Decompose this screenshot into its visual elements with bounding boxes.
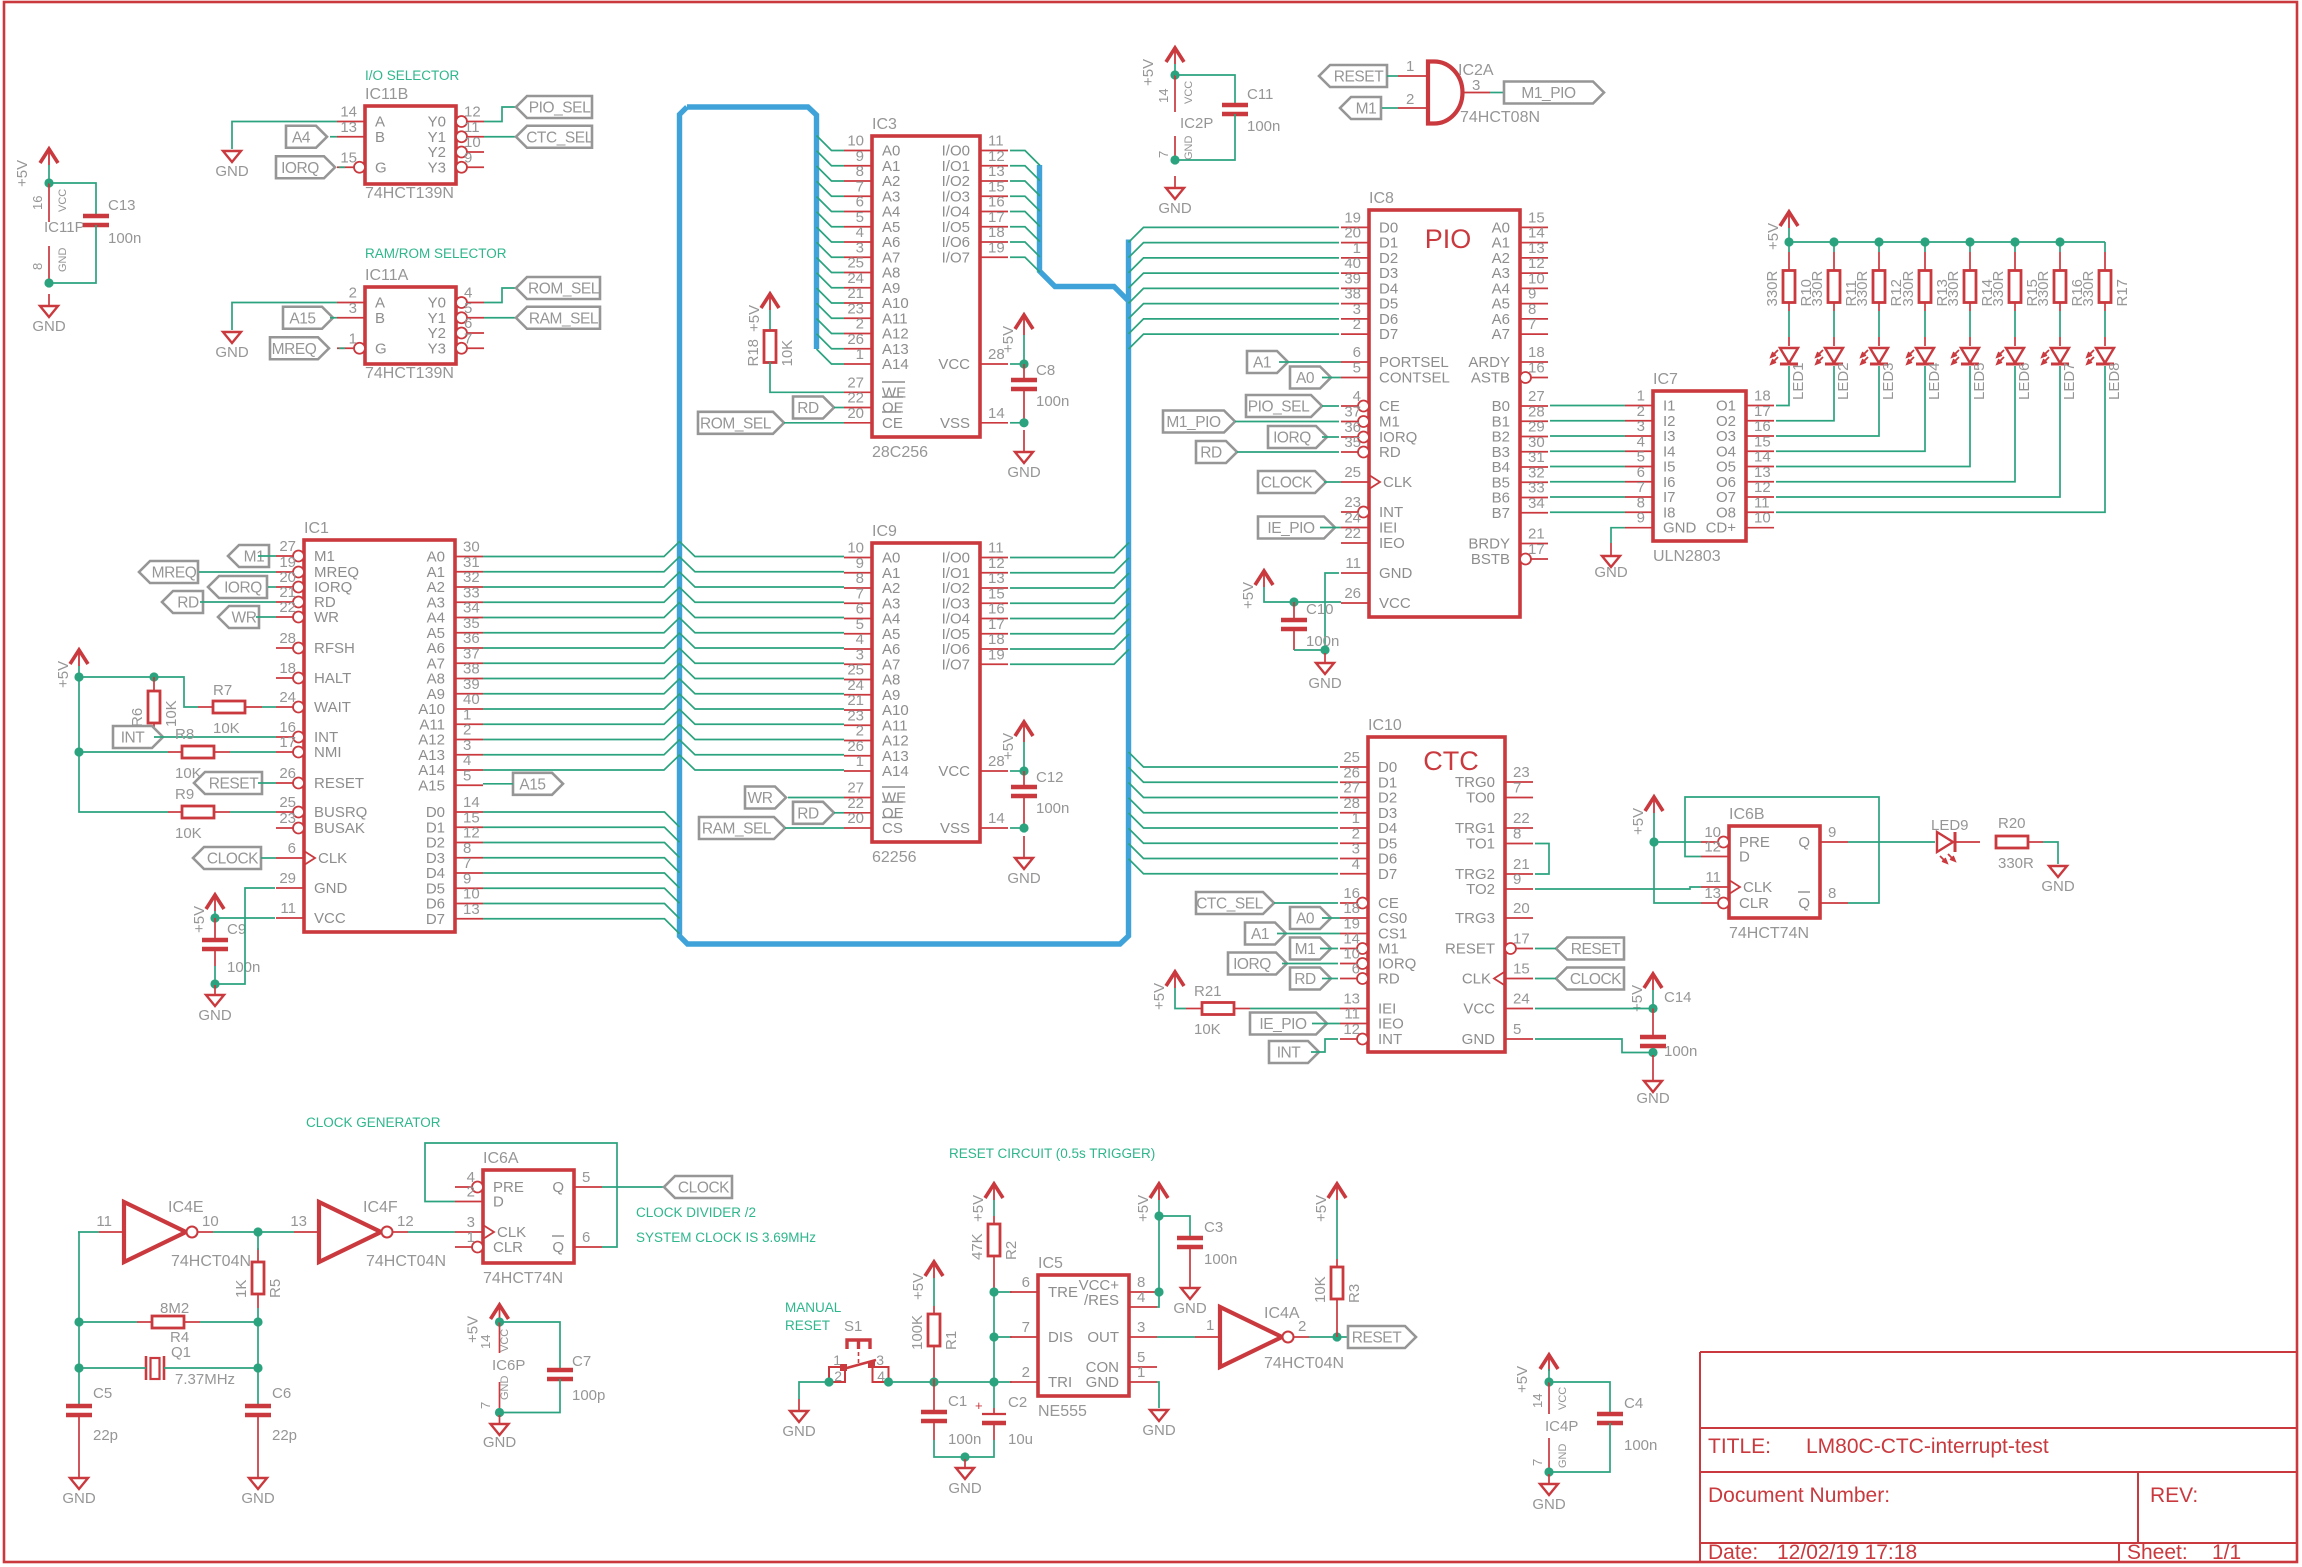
wire S1 to TRI net: [889, 1381, 1013, 1383]
wire wire LED5 to ULN O5: [1776, 366, 1970, 467]
net label IE_PIO (CTC IEO): [1250, 1013, 1327, 1035]
net label A1 (CTC CS1): [1245, 923, 1286, 945]
wire INT to CTC: [1311, 1039, 1338, 1052]
wire R21 to CTC IEI: [1250, 1008, 1340, 1010]
svg-text:2: 2: [834, 1368, 842, 1384]
wire wire CTC D5 to bus: [1129, 828, 1339, 843]
net label RAM_SEL: [516, 307, 600, 329]
svg-text:B: B: [375, 129, 385, 146]
svg-text:GND: GND: [198, 1007, 232, 1024]
svg-text:6: 6: [1022, 1274, 1030, 1291]
svg-text:C10: C10: [1306, 601, 1334, 618]
svg-text:7: 7: [464, 330, 472, 347]
svg-text:74HCT04N: 74HCT04N: [1264, 1355, 1344, 1372]
svg-text:CE: CE: [1379, 398, 1400, 415]
svg-text:14: 14: [478, 1335, 493, 1349]
svg-text:VCC: VCC: [499, 1329, 511, 1352]
svg-text:25: 25: [279, 794, 296, 811]
pin number 1 label: [1206, 1317, 1214, 1334]
svg-text:INT: INT: [1277, 1045, 1302, 1062]
wire IE_PIO to CTC IEO: [1312, 1023, 1340, 1025]
resistor R12: [1854, 270, 1905, 306]
junction CTC GND: [1648, 1048, 1657, 1057]
svg-text:330R: 330R: [1998, 855, 2034, 872]
svg-text:R7: R7: [213, 682, 232, 699]
ground at C3: [1173, 1288, 1207, 1317]
junction IC1 VCC: [210, 913, 219, 922]
svg-text:D7: D7: [1378, 866, 1397, 883]
wire IC3 A2 bus entry: [817, 166, 845, 181]
wire Y1 to RAM_SEL: [484, 317, 516, 319]
wire wire PIO B7 to ULN I8: [1550, 511, 1625, 513]
wire IC9 VCC to +5V: [1010, 770, 1024, 772]
overline mark IC6A Qbar: [552, 1235, 564, 1237]
wire IC4A out to RESET: [1309, 1336, 1348, 1338]
svg-text:+5V: +5V: [1151, 983, 1168, 1010]
net label A15 (IC11A): [283, 307, 333, 329]
svg-text:IC11P: IC11P: [44, 219, 85, 236]
junction S1 right: [884, 1377, 893, 1386]
wire CTC_SEL to CE: [1274, 902, 1338, 904]
svg-text:330R: 330R: [1809, 270, 1826, 306]
svg-text:+5V: +5V: [1240, 582, 1257, 609]
svg-text:74HCT74N: 74HCT74N: [1729, 925, 1809, 942]
wire +5V to IC6B CLR: [1654, 842, 1701, 903]
svg-text:TO1: TO1: [1466, 836, 1495, 853]
resistor R16: [2035, 270, 2086, 306]
wire S1 to GND: [799, 1382, 829, 1399]
svg-text:D7: D7: [426, 911, 445, 928]
svg-text:IC3: IC3: [872, 116, 897, 133]
wire TO2 to IC6B CLK: [1535, 887, 1701, 889]
+5V supply at CPU pull-ups: [55, 650, 88, 688]
resistor R1 leads: [933, 1306, 935, 1382]
wire IC4F out to IC6A CLK: [408, 1231, 455, 1233]
wire wire PIO B1 to ULN I2: [1550, 420, 1625, 422]
wire Q1 row right: [164, 1367, 258, 1369]
svg-text:CTC: CTC: [1423, 746, 1479, 776]
wire +5V to IC1 VCC: [215, 911, 275, 918]
svg-text:BRDY: BRDY: [1468, 536, 1510, 553]
wire Y1 to CTC_SEL: [484, 136, 516, 138]
svg-text:LED8: LED8: [2106, 362, 2123, 400]
svg-text:19: 19: [988, 239, 1005, 256]
wire wire A3 CPU-RAM over bus: [483, 587, 844, 602]
wire wire CTC D3 to bus: [1129, 798, 1339, 813]
capacitor C4: [1597, 1395, 1657, 1454]
net label M1 (CTC): [1290, 938, 1331, 960]
wire C1 to GND node: [934, 1440, 965, 1457]
C6 lead: [257, 1415, 259, 1478]
wire wire D0 CPU to bus: [483, 812, 680, 827]
wire wire LED2 to ULN O2: [1776, 366, 1834, 421]
svg-text:GND: GND: [241, 1490, 275, 1507]
svg-text:+5V: +5V: [1630, 808, 1647, 835]
+5V supply at R21: [1151, 972, 1184, 1010]
svg-text:MREQ: MREQ: [272, 341, 317, 358]
wire RD to PIO: [1237, 451, 1339, 453]
svg-text:24: 24: [1513, 991, 1530, 1008]
svg-text:CE: CE: [882, 415, 903, 432]
LED9 leads: [1955, 841, 2043, 843]
capacitor C8 leads: [1023, 364, 1025, 423]
wire IC9 VSS to GND: [1010, 827, 1024, 829]
svg-text:O8: O8: [1716, 504, 1736, 521]
junction NMI rail: [74, 747, 83, 756]
wire left column: [78, 1232, 80, 1322]
wire ROM_SEL to IC3 CE: [784, 422, 844, 424]
wire wire PIO B0 to ULN I1: [1550, 405, 1625, 407]
svg-text:74HCT04N: 74HCT04N: [171, 1253, 251, 1270]
svg-text:74HCT139N: 74HCT139N: [365, 185, 454, 202]
svg-text:GND: GND: [782, 1423, 816, 1440]
svg-text:A1: A1: [1251, 926, 1269, 943]
net label IORQ (IC11B G): [276, 156, 335, 178]
wire MREQ to IC1: [199, 571, 276, 573]
C5 lead: [78, 1415, 80, 1478]
wire IC5 VCC to +5V: [1158, 1216, 1160, 1292]
net label CTC_SEL (CTC CE): [1196, 892, 1274, 914]
resistor R13: [1900, 270, 1951, 306]
+5V supply at IC3: [1000, 315, 1033, 353]
wire Y0 to PIO_SEL: [484, 107, 516, 122]
svg-text:GND: GND: [1308, 675, 1342, 692]
svg-text:9: 9: [1637, 510, 1645, 527]
svg-text:GND: GND: [32, 318, 66, 335]
svg-text:100n: 100n: [1036, 393, 1069, 410]
svg-text:18: 18: [1528, 344, 1545, 361]
wire IC6A feedback Qbar to D: [425, 1143, 617, 1247]
net label RESET (IC1): [194, 772, 262, 794]
wire +5V stem IC5: [1158, 1200, 1160, 1216]
resistor R18: [745, 331, 796, 367]
wire IC3 I/O4 bus entry: [1010, 212, 1040, 227]
IC IC10: [1340, 717, 1533, 1052]
svg-text:10K: 10K: [163, 700, 180, 727]
svg-text:CTC_SEL: CTC_SEL: [526, 129, 593, 146]
svg-text:CLR: CLR: [1739, 895, 1769, 912]
svg-text:1K: 1K: [233, 1280, 250, 1298]
wire +5V to R1: [933, 1278, 935, 1306]
svg-text:C14: C14: [1664, 989, 1692, 1006]
net label RESET (IC2A): [1319, 65, 1387, 87]
svg-text:+5V: +5V: [191, 906, 208, 933]
svg-text:CLOCK: CLOCK: [1261, 475, 1313, 492]
svg-text:10K: 10K: [779, 340, 796, 367]
svg-text:Q: Q: [552, 1239, 564, 1256]
wire IC9 I/O2 wire to bus: [1010, 573, 1129, 588]
wire RAM_SEL to IC9 CS: [785, 827, 844, 829]
svg-text:R3: R3: [1346, 1284, 1363, 1303]
resistor R16 leads: [2059, 242, 2061, 346]
wire CTC RESET to flag: [1535, 948, 1556, 950]
IC IC7: [1625, 371, 1774, 565]
svg-text:VCC: VCC: [314, 910, 346, 927]
svg-text:NMI: NMI: [314, 744, 342, 761]
svg-text:9: 9: [1513, 871, 1521, 888]
ground at IC9: [1007, 836, 1041, 887]
IC IC5: [1010, 1255, 1157, 1420]
wire left column 2: [78, 1322, 80, 1404]
resistor R1: [909, 1314, 960, 1350]
junction LED rail R14: [1965, 237, 1974, 246]
svg-text:CLOCK: CLOCK: [207, 851, 259, 868]
IC2P power pins: [1156, 75, 1213, 160]
wire RD to IC1: [200, 601, 276, 603]
capacitor C14: [1640, 989, 1697, 1060]
svg-text:4: 4: [1137, 1289, 1145, 1306]
junction R6 top: [149, 672, 158, 681]
junction IC1 GND: [210, 979, 219, 988]
svg-text:12: 12: [397, 1213, 414, 1230]
IC IC3: [844, 116, 1008, 461]
wire +5V to IC2P: [1174, 64, 1176, 75]
wire R2 to DIS: [993, 1292, 995, 1337]
resistor R15 leads: [2014, 242, 2016, 346]
svg-text:VCC: VCC: [1183, 81, 1195, 104]
wire wire PIO B5 to ULN I6: [1550, 481, 1625, 483]
resistor R17: [2080, 270, 2131, 306]
wire IORQ to PIO: [1322, 436, 1339, 438]
capacitor C3: [1177, 1219, 1237, 1268]
wire wire CTC D2 to bus: [1129, 783, 1339, 798]
svg-text:S1: S1: [844, 1318, 862, 1335]
svg-text:17: 17: [1513, 931, 1530, 948]
svg-text:CLK: CLK: [1743, 879, 1772, 896]
svg-text:RESET: RESET: [209, 776, 259, 793]
+5V supply at CTC: [1629, 974, 1662, 1012]
wire IC3 A5 bus entry: [817, 212, 845, 227]
wire CTC CLK to flag: [1535, 978, 1556, 980]
capacitor C7: [547, 1353, 605, 1404]
wire C7 to IC6P GND: [500, 1379, 561, 1413]
svg-text:IC10: IC10: [1368, 717, 1402, 734]
wire M1 to IC1: [258, 555, 276, 557]
svg-text:R5: R5: [267, 1279, 284, 1298]
resistor R3 leads: [1336, 1259, 1338, 1337]
svg-text:14: 14: [1156, 89, 1171, 103]
svg-text:CLK: CLK: [1462, 971, 1491, 988]
svg-text:330R: 330R: [2080, 270, 2097, 306]
svg-text:Q1: Q1: [171, 1344, 191, 1361]
junction LED rail R16: [2055, 237, 2064, 246]
svg-text:VCC: VCC: [1379, 595, 1411, 612]
svg-text:DIS: DIS: [1048, 1329, 1073, 1346]
svg-text:TRE: TRE: [1048, 1284, 1078, 1301]
svg-text:C11: C11: [1247, 86, 1273, 103]
ground at IC4P: [1532, 1474, 1566, 1513]
ground at C1/C2: [948, 1459, 982, 1497]
wire wire LED4 to ULN O4: [1776, 366, 1925, 451]
wire wire PIO D5 to bus: [1129, 304, 1340, 319]
svg-text:WR: WR: [748, 790, 773, 807]
svg-text:7: 7: [1156, 151, 1171, 158]
svg-text:17: 17: [1528, 541, 1545, 558]
wire IC9 I/O0 wire to bus: [1010, 543, 1129, 558]
wire RD to IC3 OE: [834, 407, 844, 409]
+5V supply at R3: [1313, 1184, 1346, 1222]
svg-text:D: D: [493, 1194, 504, 1211]
wire IC4P VCC to C4: [1549, 1382, 1610, 1414]
svg-text:VCC: VCC: [1557, 1387, 1569, 1410]
svg-text:D: D: [1739, 849, 1750, 866]
svg-text:R8: R8: [175, 726, 194, 743]
wire IC5 OUT to IC4A: [1157, 1336, 1195, 1338]
svg-text:+5V: +5V: [1313, 1195, 1330, 1222]
svg-text:LED2: LED2: [1835, 362, 1852, 400]
svg-text:100n: 100n: [1247, 118, 1280, 135]
wire A1 to PORTSEL: [1279, 361, 1341, 363]
svg-text:+: +: [975, 1398, 983, 1413]
wire IORQ to CTC: [1282, 963, 1338, 965]
section title CLOCK GENERATOR: [306, 1115, 441, 1130]
wire C3 wire: [1159, 1216, 1190, 1238]
wire IC5 GND wire: [1157, 1382, 1159, 1408]
svg-text:GND: GND: [2041, 878, 2075, 895]
ground at IC11A A: [215, 332, 249, 361]
svg-text:74HCT08N: 74HCT08N: [1460, 109, 1540, 126]
+5V supply at IC11P: [14, 149, 58, 187]
wire wire CTC D7 to bus: [1129, 859, 1339, 874]
svg-text:TRI: TRI: [1048, 1374, 1072, 1391]
svg-text:13: 13: [1704, 885, 1721, 902]
net label RD (CTC): [1290, 968, 1331, 990]
net label PIO_SEL: [516, 96, 592, 118]
inverter IC4A: [1195, 1305, 1344, 1372]
net label IORQ (CTC): [1228, 953, 1287, 975]
svg-text:37: 37: [1344, 404, 1361, 421]
svg-text:2: 2: [1022, 1364, 1030, 1381]
resistor R20: [1996, 815, 2034, 872]
svg-text:CLOCK: CLOCK: [678, 1180, 730, 1197]
junction reset GND node: [960, 1452, 969, 1461]
wire IC6B feedback Qbar to D: [1685, 797, 1879, 903]
wire IC11B A to GND: [232, 122, 337, 150]
wire R18 to IC3 WE: [770, 362, 844, 392]
wire DIS wire: [994, 1336, 1012, 1338]
wire wire A10 CPU-RAM over bus: [483, 694, 844, 709]
svg-text:RESET CIRCUIT (0.5s TRIGGER): RESET CIRCUIT (0.5s TRIGGER): [949, 1146, 1155, 1161]
IC IC6B: [1701, 806, 1848, 942]
wire IORQ to IC1: [268, 586, 276, 588]
svg-text:2: 2: [1353, 316, 1361, 333]
svg-text:LED3: LED3: [1880, 362, 1897, 400]
wire IC3 I/O1 bus entry: [1010, 166, 1040, 181]
net label RESET (CTC): [1556, 938, 1624, 960]
svg-text:BUSAK: BUSAK: [314, 820, 365, 837]
svg-text:GND: GND: [1173, 1300, 1207, 1317]
svg-text:IC11A: IC11A: [365, 267, 409, 284]
wire IC2P VCC to C11: [1175, 75, 1235, 105]
wire M1 to IC2A pin2: [1382, 107, 1398, 109]
resistor R2: [969, 1224, 1020, 1260]
svg-text:+5V: +5V: [1135, 1195, 1152, 1222]
wire wire A12 CPU-RAM over bus: [483, 725, 844, 740]
svg-text:RESET: RESET: [1334, 69, 1384, 86]
svg-text:TRG1: TRG1: [1455, 820, 1495, 837]
wire +5V to R3: [1336, 1200, 1338, 1259]
svg-text:LED4: LED4: [1926, 362, 1943, 400]
net label IORQ (IC1): [208, 576, 267, 598]
wire wire PIO B6 to ULN I7: [1550, 496, 1625, 498]
ground at ULN2803: [1594, 543, 1628, 581]
wire IC9 I/O6 wire to bus: [1010, 634, 1129, 649]
svg-text:Y3: Y3: [428, 340, 446, 357]
wire wire A2 CPU-RAM over bus: [483, 572, 844, 587]
LED LED5: [1952, 348, 1988, 400]
svg-text:1: 1: [349, 330, 357, 347]
svg-text:Document Number:: Document Number:: [1708, 1484, 1890, 1507]
wire TRE wire: [994, 1291, 1012, 1293]
net label MREQ (IC1): [139, 561, 198, 583]
svg-text:INT: INT: [1378, 1031, 1402, 1048]
svg-text:OUT: OUT: [1087, 1329, 1119, 1346]
net label WR (IC1): [218, 606, 259, 628]
svg-text:GND: GND: [1532, 1496, 1566, 1513]
wire wire A1 CPU-RAM over bus: [483, 557, 844, 572]
svg-text:ASTB: ASTB: [1471, 370, 1510, 387]
capacitor C2 leads: [993, 1408, 995, 1440]
svg-text:CS: CS: [882, 820, 903, 837]
ground at S1: [782, 1399, 816, 1440]
ground at IC6P: [483, 1415, 517, 1451]
resistor R12 leads: [1878, 242, 1880, 346]
junction IC6B PRE: [1649, 837, 1658, 846]
svg-text:GND: GND: [1557, 1444, 1569, 1469]
junction +5V rail: [74, 672, 83, 681]
svg-text:+5V: +5V: [1140, 59, 1157, 86]
svg-text:IC8: IC8: [1369, 190, 1394, 207]
svg-text:100n: 100n: [1036, 800, 1069, 817]
svg-text:M1_PIO: M1_PIO: [1166, 414, 1221, 431]
svg-text:PIO_SEL: PIO_SEL: [529, 100, 591, 117]
wire Q1 row left: [79, 1367, 146, 1369]
wire IC3 A3 bus entry: [817, 181, 845, 196]
resistor R3: [1312, 1267, 1363, 1303]
junction IC2P GND: [1170, 155, 1179, 164]
svg-text:RD: RD: [177, 595, 199, 612]
capacitor C12: [1011, 769, 1069, 817]
svg-text:+5V: +5V: [1000, 326, 1017, 353]
wire wire LED8 to ULN O8: [1776, 366, 2105, 512]
svg-text:SYSTEM CLOCK IS 3.69MHz: SYSTEM CLOCK IS 3.69MHz: [636, 1230, 816, 1245]
inverter IC4E: [96, 1199, 251, 1270]
svg-text:RESET: RESET: [314, 775, 364, 792]
switch S1: [829, 1318, 889, 1384]
junction IC4P VCC: [1544, 1377, 1553, 1386]
wire wire A4 CPU-RAM over bus: [483, 603, 844, 618]
svg-text:18: 18: [1343, 900, 1360, 917]
wire R7 to IC1 WAIT: [262, 706, 276, 708]
svg-text:330R: 330R: [1764, 270, 1781, 306]
junction DIS: [989, 1332, 998, 1341]
capacitor C2 (electrolytic): [975, 1394, 1033, 1448]
LED LED7: [2042, 348, 2078, 400]
svg-text:A0: A0: [1296, 911, 1315, 928]
svg-text:CD+: CD+: [1706, 520, 1737, 537]
svg-text:IE_PIO: IE_PIO: [1259, 1016, 1307, 1033]
junction IC3 VSS: [1019, 418, 1028, 427]
resistor R7 leads: [198, 706, 262, 708]
svg-text:26: 26: [279, 765, 296, 782]
junction INT node: [149, 732, 158, 741]
wire rail to R6/R7: [79, 677, 198, 707]
wire wire PIO D7 to bus: [1129, 334, 1340, 349]
svg-text:26: 26: [1344, 585, 1361, 602]
svg-text:GND: GND: [62, 1490, 96, 1507]
LED LED3: [1861, 348, 1897, 400]
svg-text:A1: A1: [1253, 355, 1271, 372]
